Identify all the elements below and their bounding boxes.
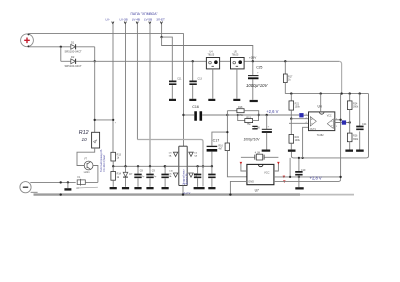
wire column 2 from pin2 down: [125, 24, 127, 167]
svg-text:SR5100-04CT: SR5100-04CT: [65, 64, 83, 68]
svg-text:TL082: TL082: [317, 134, 324, 137]
node junction 94.7,61.3: [94, 60, 96, 62]
svg-text:390k: 390k: [353, 138, 359, 141]
resistor R12: [77, 61, 100, 165]
svg-text:3Л-ЕТ: 3Л-ЕТ: [156, 17, 165, 21]
wire minus bottom to bus: [31, 191, 38, 193]
svg-text:U6: U6: [318, 105, 322, 109]
wire main reference node y=115: [227, 114, 299, 116]
diode D2 (SR5100) bottom: [61, 55, 82, 68]
svg-text:Шоттки 5А: Шоттки 5А: [185, 173, 188, 185]
bridge top tie: [179, 145, 187, 147]
svg-text:+: +: [257, 71, 259, 75]
svg-text:LV-4B: LV-4B: [132, 17, 140, 21]
svg-text:SR5100-04CT: SR5100-04CT: [65, 49, 83, 53]
wire U6 pin3: [289, 122, 309, 124]
opamp supply rail y=93.6: [285, 93, 368, 95]
wire U7 out low y=181.4 to riser: [274, 179, 341, 181]
connector pin 1: [112, 22, 114, 24]
wire H1 descent x=183.5 down to bridge top: [183, 33, 185, 146]
wire bridge left arm: [165, 165, 179, 167]
svg-text:R19: R19: [246, 116, 251, 119]
red test marks: [240, 162, 243, 165]
wire step down to rectified row: [162, 37, 253, 61]
capacitor C13 with ground: [189, 60, 202, 101]
svg-text:U7: U7: [255, 188, 259, 192]
svg-text:LV-5B: LV-5B: [144, 17, 152, 21]
regulator U4 78L05: [206, 51, 219, 101]
bus wire (thick gray bottom): [34, 193, 301, 195]
svg-text:4.1M: 4.1M: [255, 152, 260, 154]
svg-text:LV-3B: LV-3B: [120, 17, 128, 21]
bridge diode D4 top right: [189, 152, 198, 157]
connector pin 2: [124, 22, 126, 24]
node col1 bottom: [112, 165, 114, 167]
svg-text:VCC: VCC: [264, 170, 270, 174]
bridge diode D6 bottom right: [189, 173, 198, 178]
diode D1 (SR5100) top: [65, 41, 95, 54]
riser node x=227.4: [226, 114, 228, 116]
connector pin 3: [136, 22, 138, 24]
resistor R13 on column1: [111, 152, 122, 166]
capacitor under C17 branch with ground: [208, 165, 215, 189]
wire U6 pin4 loop down: [303, 127, 309, 158]
diode D7 with ground: [122, 165, 133, 189]
wire gray loop from column3: [137, 140, 203, 187]
resistor R18: [227, 106, 258, 117]
capacitor C27 1000u electrolytic: [244, 114, 272, 152]
wire column 3 from pin3 down: [136, 24, 138, 140]
capacitor C16: [184, 105, 228, 121]
wire U6 VCC stub: [320, 94, 322, 112]
ground at minus row: [67, 182, 69, 188]
wire diode parallel drop: [60, 47, 62, 62]
svg-text:10: 10: [82, 137, 88, 142]
resistor R19: [237, 114, 259, 126]
wire gray corner down to opamp rail: [339, 61, 341, 93]
wire U6 right pin to vertical: [335, 119, 341, 121]
svg-text:ПАПА "ХПМВОА": ПАПА "ХПМВОА": [131, 12, 159, 16]
resistor R24: [347, 94, 359, 123]
capacitor C10 with ground: [161, 165, 173, 189]
svg-text:LV-: LV-: [106, 17, 110, 21]
wire U6 pin2: [291, 118, 308, 120]
svg-text:1000µ*10V: 1000µ*10V: [246, 83, 268, 88]
blue net square OUT: [342, 120, 346, 124]
svg-text:100k: 100k: [295, 139, 301, 142]
wire column 1 from pin1 down: [112, 24, 114, 153]
wire IN square to U6: [304, 114, 309, 116]
svg-text:78L05: 78L05: [232, 54, 239, 57]
IC U6 dual opamp: [306, 105, 339, 137]
node opamp input divider: [290, 118, 292, 120]
bridge diode D5 bottom left: [169, 173, 178, 178]
svg-text:D2: D2: [71, 55, 75, 59]
transformer connector header (blue): [106, 12, 166, 21]
wire diode1 return down at x=94.7: [94, 47, 96, 62]
diode bridge right rail: [186, 146, 188, 185]
crystal X1 with loop: [241, 152, 279, 171]
bridge diode D3 top left: [169, 152, 178, 157]
svg-text:xx0m: xx0m: [84, 171, 90, 174]
wire bridge bottom to bus: [182, 186, 184, 195]
svg-text:C16: C16: [192, 105, 199, 109]
svg-text:GND: GND: [248, 180, 254, 184]
wire main DC row y=61.3: [76, 60, 340, 62]
svg-text:D1: D1: [71, 41, 75, 45]
svg-text:78L05: 78L05: [208, 54, 215, 57]
svg-text:+2,8 V: +2,8 V: [310, 176, 322, 181]
terminal - (minus terminal): [20, 182, 31, 193]
svg-text:OUT1: OUT1: [310, 129, 317, 131]
wire U7 GND to bus: [230, 181, 247, 194]
svg-text:+2,6 V: +2,6 V: [266, 109, 278, 114]
svg-text:+1,2 V: +1,2 V: [183, 191, 191, 195]
resistor R16 on riser: [218, 143, 247, 177]
wire column 4 from pin4 down: [149, 24, 151, 167]
wire H1 top rail from + terminal to x=183.5: [29, 32, 184, 34]
svg-text:C19: C19: [301, 169, 306, 172]
capacitor C11 with ground: [169, 78, 182, 101]
resistor R22 with ground: [288, 119, 301, 152]
wire riser x=227.4: [226, 111, 228, 143]
svg-text:R18: R18: [238, 106, 243, 109]
node C16 tap on H1 descent: [182, 114, 184, 116]
capacitor C19 with ground: [295, 158, 306, 190]
capacitor flanking bridge right with ground: [194, 165, 205, 189]
svg-text:I=0-10А 2,5мм²: I=0-10А 2,5мм²: [103, 155, 106, 172]
wire column 5 from pin5 down to node: [161, 24, 163, 37]
resistor R21: [289, 94, 301, 119]
svg-text:1000µ*10V: 1000µ*10V: [244, 137, 261, 141]
bridge bottom tie: [179, 185, 187, 187]
svg-text:4k7: 4k7: [218, 148, 223, 151]
wire C17 branch: [212, 132, 228, 146]
svg-text:C17: C17: [213, 138, 220, 142]
IC U7: [247, 164, 274, 192]
connector pin 4: [149, 22, 151, 24]
svg-text:C13: C13: [198, 78, 203, 81]
resistor R17 dropper to opamp rail: [283, 60, 293, 94]
node junction at 60.8,46.8: [60, 46, 62, 48]
svg-text:C25: C25: [256, 66, 262, 70]
svg-text:100k: 100k: [295, 106, 301, 109]
wire minus top row y=182.4: [30, 181, 98, 183]
wire step to C11 column: [162, 37, 173, 81]
wire feedback row y=157.9: [291, 94, 368, 158]
capacitor C25 1000u 10V electrolytic: [246, 61, 268, 102]
wire + terminal bottom to diode junction: [29, 46, 70, 48]
resistor R26 with ground: [345, 123, 359, 152]
resistor R14 with ground: [110, 166, 122, 189]
transistor VT1 (circle component): [84, 158, 98, 182]
connector pin 5: [160, 22, 162, 24]
blue net square IN: [299, 113, 303, 117]
node R18/R19 return: [258, 114, 260, 116]
node bridge left: [164, 165, 166, 167]
svg-text:390k: 390k: [353, 106, 359, 109]
capacitor C8 with ground: [134, 165, 145, 189]
capacitor C26: [252, 126, 260, 130]
shunt component on minus row: [77, 176, 85, 186]
capacitor C17: [207, 138, 220, 166]
wire U7 out mid y=176.9: [274, 176, 341, 178]
wire bridge right arm: [187, 165, 212, 167]
node +26V: [252, 60, 254, 62]
svg-text:R12: R12: [79, 130, 89, 136]
svg-text:C11: C11: [177, 78, 182, 81]
wire stub down to U7 row: [289, 158, 291, 177]
node junction 161.6,37.1: [160, 36, 162, 38]
vertical x=340.6 from rail down: [340, 94, 342, 180]
adjustment arrow: [76, 186, 98, 189]
wire OUT square to divider: [335, 122, 350, 124]
svg-text:C26: C26: [255, 126, 261, 130]
capacitor C9 with ground: [146, 165, 157, 189]
wire bottom distribution row y=166.3: [113, 165, 213, 167]
terminal + (input plus terminal, top left): [21, 33, 34, 47]
wire R12 tap to column1: [95, 119, 114, 121]
svg-text:+26V: +26V: [249, 55, 257, 59]
regulator U5 78L05: [231, 51, 245, 101]
diode bridge left rail: [178, 146, 180, 185]
svg-text:VCC: VCC: [327, 116, 332, 118]
capacitor C24 with ground: [356, 94, 367, 152]
